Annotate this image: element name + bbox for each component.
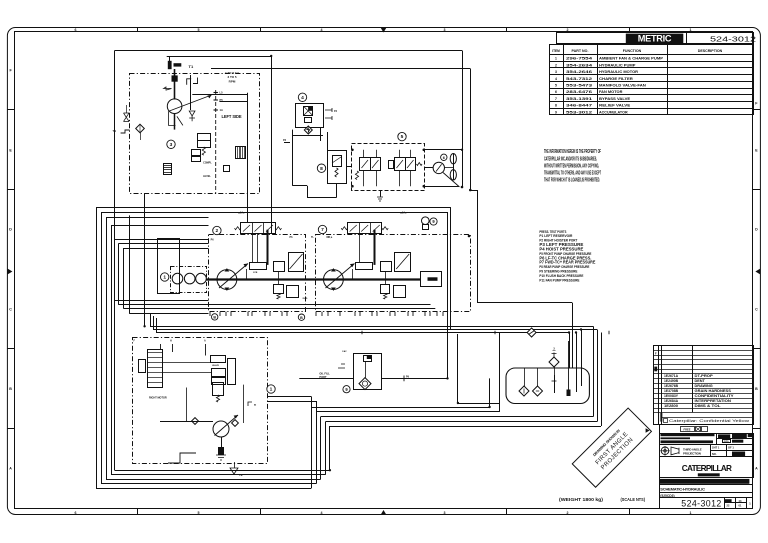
svg-text:RELIEF VALVE: RELIEF VALVE (599, 104, 631, 108)
svg-text:CAC: CAC (342, 350, 347, 353)
svg-text:3: 3 (444, 28, 446, 32)
svg-text:3 TO 5: 3 TO 5 (227, 75, 236, 79)
front low valves (274, 285, 284, 294)
title block (646, 346, 754, 509)
travel motor core (148, 350, 163, 388)
manifold valve A (360, 158, 371, 171)
oil fill line (299, 378, 353, 380)
travel charge pump (213, 421, 229, 437)
svg-text:GRAIN HARDNESS: GRAIN HARDNESS (695, 389, 732, 393)
pilot boxes (192, 150, 201, 156)
balloon b1 (212, 314, 218, 320)
svg-text:HYDRAULIC PUMP: HYDRAULIC PUMP (599, 63, 636, 67)
svg-text:BYPASS VALVE: BYPASS VALVE (599, 97, 631, 101)
inlet check valve (124, 113, 130, 122)
svg-text:FUNCTION: FUNCTION (623, 49, 642, 53)
shaft end box (421, 272, 442, 287)
check pair (192, 418, 199, 425)
svg-text:WITHOUT WRITTEN PERMISSION, AN: WITHOUT WRITTEN PERMISSION, ANY COPYING, (544, 163, 599, 169)
svg-text:METRIC: METRIC (638, 34, 672, 44)
svg-text:RIGHT MOTOR: RIGHT MOTOR (149, 397, 167, 400)
check valve stack (189, 111, 195, 116)
rear relief pair (381, 262, 392, 272)
travel valves (211, 356, 226, 363)
breather (549, 357, 559, 367)
oil fill filter box (354, 354, 382, 390)
cooler core B (236, 147, 246, 159)
reservoir feed lines (114, 300, 208, 302)
rear pump (324, 270, 344, 290)
wire engine to fan return (211, 68, 470, 70)
svg-text:P4 HOIST PRESSURE: P4 HOIST PRESSURE (539, 246, 583, 251)
long vertical through left group (144, 193, 146, 326)
svg-text:P5: P5 (220, 98, 224, 102)
svg-text:1E2490B: 1E2490B (664, 379, 679, 383)
filter wires (292, 130, 294, 186)
svg-text:DT-PROP: DT-PROP (695, 374, 714, 378)
svg-text:CATERPILLAR INC.AND/OR ITS SUB: CATERPILLAR INC.AND/OR ITS SUBSIDIARIES, (544, 156, 597, 162)
svg-text:JCB: JCB (253, 272, 258, 274)
rear servo valve (348, 223, 382, 234)
svg-text:(SCALE NTS): (SCALE NTS) (621, 497, 646, 502)
accumulator (item 9) (422, 217, 430, 225)
svg-text:553-5473: 553-5473 (566, 84, 592, 88)
svg-text:B: B (213, 316, 216, 320)
misc verticals in band (252, 234, 254, 263)
svg-text:354-2634: 354-2634 (566, 63, 593, 67)
svg-text:A: A (9, 466, 12, 470)
svg-text:P1 LEFT RESERVOIR: P1 LEFT RESERVOIR (539, 234, 573, 238)
charge pump circle (167, 99, 182, 114)
port boundary dashes (215, 90, 217, 193)
svg-text:DHD: DHD (303, 298, 308, 300)
svg-text:8: 8 (320, 166, 323, 172)
servo actuator (250, 263, 267, 270)
svg-text:OIL FILL: OIL FILL (319, 372, 330, 376)
pump group enclosure left (209, 235, 306, 312)
svg-text:1E2684A: 1E2684A (664, 399, 679, 403)
svg-text:CHARGE FILTER: CHARGE FILTER (599, 77, 633, 81)
svg-text:2: 2 (216, 228, 219, 234)
charge pump trio (172, 273, 183, 284)
svg-text:3: 3 (555, 70, 557, 74)
svg-text:A: A (204, 340, 206, 343)
svg-text:8: 8 (555, 104, 557, 108)
front pump (217, 270, 237, 290)
svg-text:B: B (755, 387, 758, 391)
filter element (304, 107, 313, 116)
case drain arrow (164, 87, 172, 90)
junction dots (446, 377, 448, 379)
svg-text:Caterpillar: Confidential Yell: Caterpillar: Confidential Yellow (669, 419, 750, 423)
balloon 4 (298, 93, 306, 101)
svg-text:RPM: RPM (229, 80, 236, 84)
suction strainers (519, 386, 529, 396)
inner links (205, 344, 207, 356)
svg-text:3: 3 (444, 511, 446, 515)
pump group enclosure right (316, 235, 471, 312)
svg-text:4: 4 (301, 95, 304, 101)
svg-text:D: D (755, 227, 758, 231)
svg-text:TRANSMITTAL TO OTHERS, AND ANY: TRANSMITTAL TO OTHERS, AND ANY USE EXCEP… (544, 171, 601, 177)
svg-text:5: 5 (198, 511, 200, 515)
svg-text:DIMS & TOL: DIMS & TOL (695, 404, 721, 408)
svg-text:THAT FOR WHICH IT IS LOANED,IS: THAT FOR WHICH IT IS LOANED,IS PROHIBITE… (544, 178, 600, 184)
balloon 9 (430, 218, 437, 225)
svg-text:6: 6 (75, 511, 77, 515)
svg-text:ACCUMULATOR: ACCUMULATOR (599, 110, 628, 114)
svg-text:DENT: DENT (695, 379, 706, 383)
svg-text:FREE: FREE (684, 428, 691, 432)
svg-text:P10 FLUSH BACK PRESSURE: P10 FLUSH BACK PRESSURE (539, 274, 584, 278)
svg-text:HYDRAULIC MOTOR: HYDRAULIC MOTOR (599, 70, 638, 74)
svg-text:a,2Aa: a,2Aa (400, 212, 407, 215)
wire top loop 1 (115, 50, 462, 52)
rear low valves (381, 285, 390, 294)
svg-text:SHT 1: SHT 1 (712, 445, 720, 449)
reservoir box (158, 239, 180, 294)
svg-text:346-8447: 346-8447 (566, 104, 592, 108)
svg-text:4: 4 (321, 511, 323, 515)
svg-text:LEFT SIDE: LEFT SIDE (222, 114, 242, 119)
svg-text:FAN MOTOR: FAN MOTOR (599, 90, 623, 94)
parts table (549, 45, 754, 115)
travel motor enclosure (133, 338, 268, 464)
lower group links (267, 396, 311, 398)
balloon 7 (318, 225, 326, 233)
svg-text:4 TO 8 CA: 4 TO 8 CA (225, 71, 240, 75)
inlet strainer (136, 124, 145, 133)
balloon 3 (167, 140, 175, 148)
svg-text:H: H (170, 340, 172, 343)
drain lines under pump (169, 112, 183, 125)
svg-text:5: 5 (401, 134, 404, 140)
bottom wire bundle (96, 488, 311, 490)
svg-text:DRAWING: DRAWING (695, 384, 714, 388)
svg-text:TB: TB (113, 129, 117, 133)
drive shaft line (206, 278, 420, 280)
fan blades (450, 154, 456, 164)
svg-text:354-2646: 354-2646 (566, 70, 592, 74)
wire top loop 2 (167, 56, 272, 58)
svg-text:PART NO.: PART NO. (572, 49, 589, 53)
small valve (224, 166, 230, 172)
svg-text:B: B (9, 387, 12, 391)
fan motor (433, 162, 444, 173)
svg-text:C: C (9, 307, 12, 311)
svg-text:SCHEMATIC-HYDRAULIC: SCHEMATIC-HYDRAULIC (660, 487, 705, 492)
svg-text:MR,a: MR,a (327, 236, 333, 239)
svg-text:1: 1 (690, 28, 692, 32)
svg-text:a,2Aa: a,2Aa (238, 212, 245, 215)
svg-text:1: 1 (270, 387, 273, 393)
svg-text:524-3012: 524-3012 (681, 498, 721, 508)
pressure valve (198, 134, 211, 148)
svg-text:PROJECTION: PROJECTION (683, 452, 701, 456)
svg-text:5: 5 (198, 28, 200, 32)
balloon 10 (267, 385, 275, 393)
svg-text:2: 2 (555, 63, 557, 67)
property note text (544, 149, 601, 183)
first angle projection stamp (572, 408, 651, 487)
manifold drain (380, 191, 382, 197)
svg-text:3: 3 (170, 142, 173, 148)
tank internals (554, 375, 556, 393)
svg-text:CONFIDENTIALITY: CONFIDENTIALITY (695, 394, 735, 398)
svg-text:AMBIENT FAN & CHARGE PUMP: AMBIENT FAN & CHARGE PUMP (599, 57, 663, 61)
svg-text:D: D (9, 227, 12, 231)
balloon b2 (298, 314, 304, 320)
hydraulic tank (506, 368, 589, 404)
svg-text:INTERPRETATION: INTERPRETATION (695, 399, 732, 403)
tank return bundle (150, 326, 593, 328)
svg-text:1: 1 (690, 511, 692, 515)
svg-text:OF 1: OF 1 (728, 445, 734, 449)
relief valve box (328, 151, 347, 184)
svg-text:TB: TB (239, 473, 243, 477)
balloon 11 (343, 386, 350, 393)
svg-text:524-3012: 524-3012 (710, 34, 756, 43)
svg-text:P11 FAN PUMP PRESSURE: P11 FAN PUMP PRESSURE (539, 278, 580, 282)
svg-text:CATERPILLAR: CATERPILLAR (682, 464, 732, 473)
svg-text:1A: 1A (220, 108, 223, 112)
svg-text:2: 2 (567, 511, 569, 515)
svg-text:1E2676B: 1E2676B (664, 384, 679, 388)
svg-text:F: F (655, 352, 657, 356)
charge pump trio enclosure (171, 267, 207, 293)
manifold valve B (395, 158, 406, 171)
svg-text:6: 6 (555, 90, 557, 94)
mid wire bundle (311, 407, 489, 409)
engine bracket (187, 78, 198, 85)
svg-text:1E2800: 1E2800 (664, 404, 678, 408)
wire notes loop (477, 190, 479, 303)
svg-text:ITEM: ITEM (552, 49, 560, 53)
svg-text:7: 7 (555, 97, 557, 101)
drive shaft (174, 69, 176, 99)
svg-text:B: B (300, 316, 303, 320)
svg-text:543-7312: 543-7312 (566, 77, 592, 81)
svg-text:4: 4 (555, 77, 557, 81)
svg-text:7: 7 (321, 227, 324, 233)
check valve on tank line (527, 328, 536, 337)
svg-text:DESCRIPTION: DESCRIPTION (698, 49, 723, 53)
svg-text:4: 4 (321, 28, 323, 32)
pressure test port notes (539, 230, 595, 283)
wire to ports (192, 94, 247, 96)
svg-text:THE INFORMATION HEREIN IS THE: THE INFORMATION HEREIN IS THE PROPERTY O… (544, 149, 601, 155)
svg-text:6: 6 (75, 28, 77, 32)
filter ports (325, 108, 332, 120)
front relief pair (274, 262, 285, 272)
balloon 8 (317, 164, 325, 172)
svg-text:1E2671A: 1E2671A (664, 374, 679, 378)
drain to tank (221, 437, 223, 455)
svg-text:PORT: PORT (319, 375, 327, 379)
METRIC header strip (557, 32, 757, 43)
bottom port ticks (209, 312, 211, 316)
svg-text:5: 5 (555, 84, 557, 88)
P3 tick (284, 142, 290, 144)
cooler core A (164, 164, 172, 175)
svg-text:NO.: NO. (712, 452, 717, 456)
svg-text:T1: T1 (189, 64, 194, 69)
step wire (168, 453, 196, 463)
charge filter box (296, 104, 324, 128)
coupling T1 (168, 61, 172, 69)
svg-text:TI: TI (254, 404, 256, 407)
balloon 6 (441, 154, 447, 160)
svg-text:2: 2 (567, 28, 569, 32)
svg-text:P7 FWD-TC+ REAR PRESSURE: P7 FWD-TC+ REAR PRESSURE (539, 260, 595, 265)
svg-text:A: A (755, 466, 758, 470)
svg-text:P8 REAR PUMP CHARGE PRESSURE: P8 REAR PUMP CHARGE PRESSURE (539, 265, 590, 269)
svg-text:MANIFOLD VALVE-FAN: MANIFOLD VALVE-FAN (599, 84, 646, 88)
svg-text:FIPS: FIPS (724, 441, 729, 443)
svg-text:PRESS. TEST PORTS: PRESS. TEST PORTS (539, 230, 567, 234)
manifold outlet (425, 167, 434, 169)
svg-text:C: C (755, 307, 758, 311)
svg-text:296-7554: 296-7554 (566, 57, 593, 61)
right side vertical wires (450, 207, 452, 329)
svg-text:1E0083Y: 1E0083Y (664, 394, 679, 398)
svg-text:LEVEL: LEVEL (203, 175, 211, 178)
left wire bundle (96, 207, 98, 488)
front servo valve (241, 223, 276, 234)
svg-text:1E3708B: 1E3708B (664, 389, 679, 393)
svg-text:(WEIGHT 1800 kg): (WEIGHT 1800 kg) (559, 497, 604, 502)
svg-text:283-6476: 283-6476 (566, 90, 592, 94)
svg-text:9: 9 (555, 110, 557, 114)
svg-text:1: 1 (163, 275, 166, 281)
svg-text:553-3012: 553-3012 (566, 110, 592, 114)
svg-text:VALVE: VALVE (212, 364, 220, 367)
fan manifold enclosure (352, 144, 425, 191)
rear servo actuator (356, 263, 373, 270)
travel spring valve (213, 383, 224, 396)
svg-text:COMPL: COMPL (203, 162, 212, 165)
balloon 2 (213, 226, 221, 234)
svg-text:353-1391: 353-1391 (566, 97, 592, 101)
svg-text:1: 1 (555, 57, 557, 61)
oil fill strainer (359, 378, 371, 390)
balloon 5 (398, 132, 406, 140)
bypass check (304, 126, 312, 134)
balloon 1 (161, 273, 169, 281)
svg-text:P9 STEERING PRESSURE: P9 STEERING PRESSURE (539, 270, 578, 274)
motor drain diagonal (443, 173, 459, 187)
left side enclosure (130, 74, 260, 194)
svg-text:6: 6 (443, 156, 445, 160)
